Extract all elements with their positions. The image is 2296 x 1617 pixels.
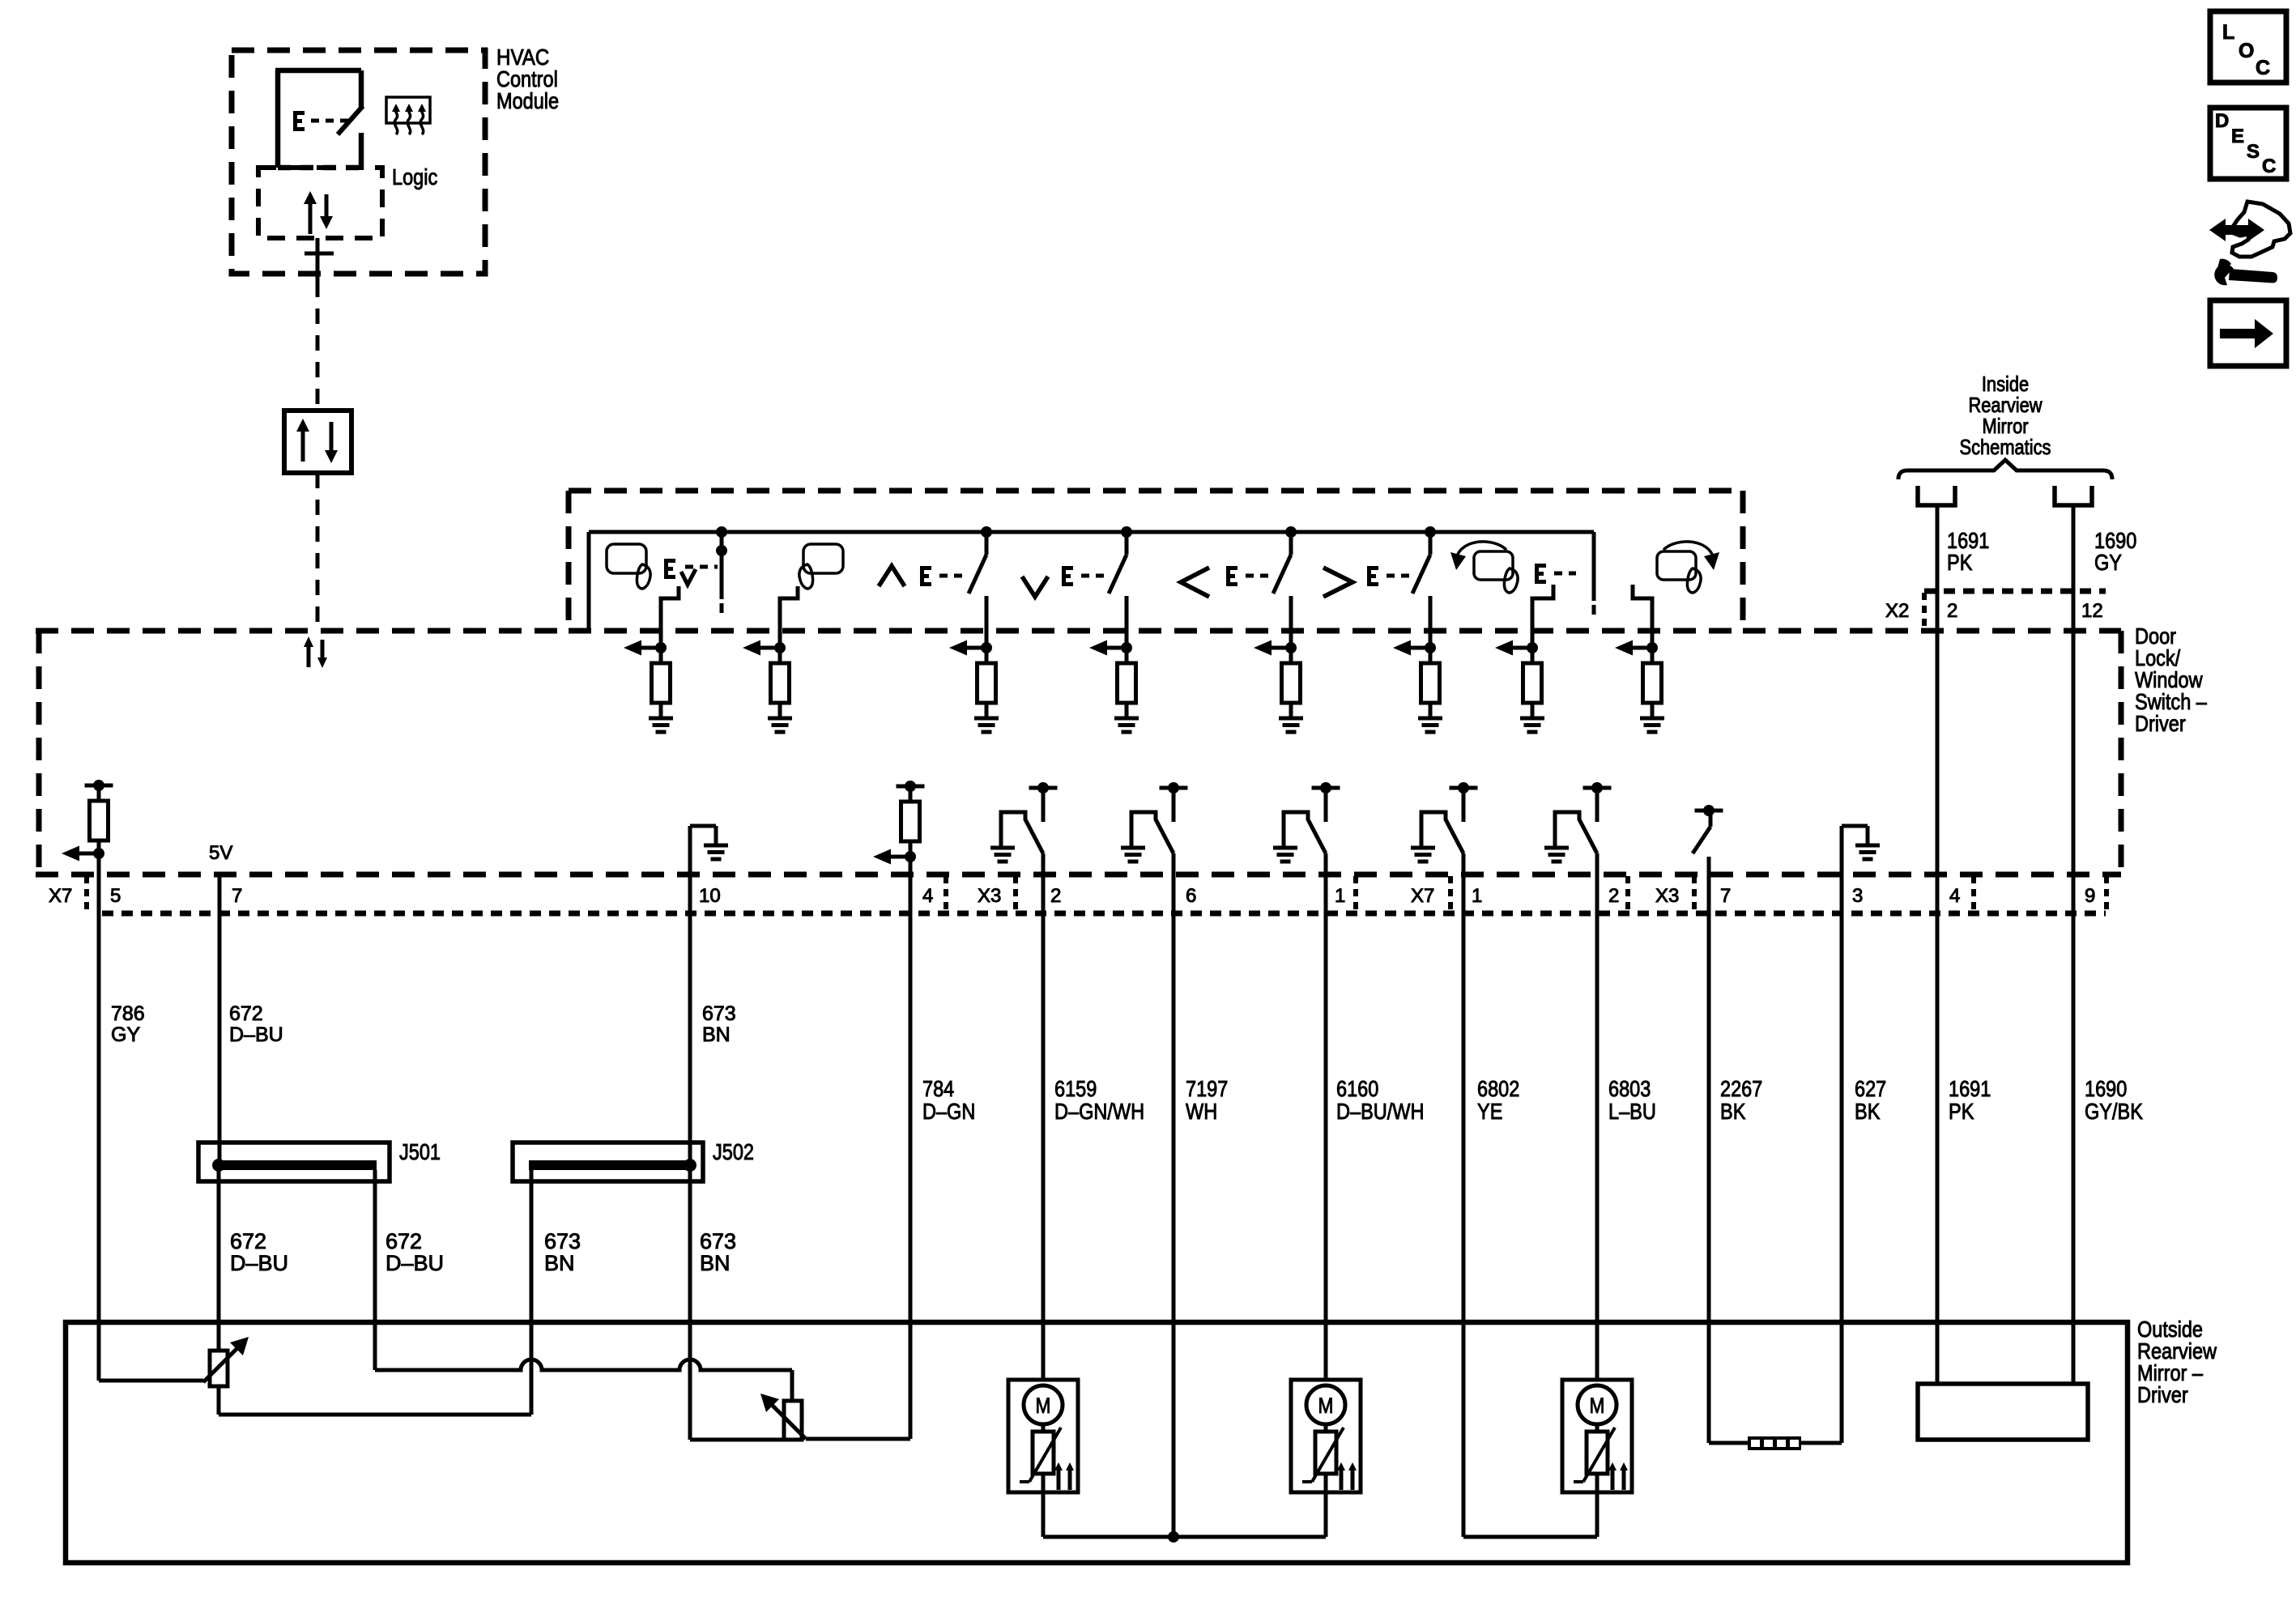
X7 pin4 sense resistor column [897,785,925,789]
motor direction arrows [1057,1468,1061,1490]
svg-text:X2: X2 [1885,600,1909,622]
serial data up/down arrow box [284,411,351,473]
svg-text:4: 4 [922,885,933,907]
motor box [1562,1380,1632,1492]
switch blade [1289,532,1293,555]
svg-text:J502: J502 [713,1139,754,1164]
dashed wire from arrow box to switch module [316,473,320,631]
svg-text:672: 672 [229,1002,263,1025]
inside mirror harness stub block [1918,1384,2088,1440]
svg-text:673: 673 [700,1229,736,1253]
direction glyph [1323,568,1352,597]
wire 627 BK [1840,874,1844,1443]
mirror fold icon [1474,551,1513,580]
inside mirror connector terminal 1 [1918,486,1955,505]
svg-text:784: 784 [922,1076,954,1101]
rheostat1 bottom return [217,1386,221,1415]
svg-text:2: 2 [1050,885,1061,907]
wire hook group8 [1633,585,1652,648]
fixed contact wire [1125,596,1129,648]
wire 673 BN from pin 10 [688,874,692,1165]
heater feed 2267 [1709,1441,1748,1445]
switch blade [1429,532,1433,555]
fixed contact wire [985,596,989,648]
motor box [1291,1380,1361,1492]
motor3 return to 6802 [1463,1535,1597,1539]
svg-text:D–BU: D–BU [386,1251,444,1275]
HVAC switch E actuator symbol [293,111,297,131]
svg-text:9: 9 [2085,885,2095,907]
wire 1691 PK [1936,505,1940,1384]
blade and ground terminal [1555,812,1597,853]
connector separators [84,876,89,912]
motor box [1008,1380,1078,1492]
forward arrow icon box [2210,300,2286,366]
arrow/resistor/ground group 8 [1631,646,1652,650]
wire 786 to rheostat 1 wiper [99,1379,203,1383]
svg-text:1691: 1691 [1949,1076,1991,1101]
svg-text:X7: X7 [49,885,72,907]
Outside Rearview Mirror - Driver box [66,1322,2128,1563]
mirror select switch (driver mirror icon) [607,544,646,573]
arrow/resistor/ground [1270,646,1291,650]
arrow/resistor/ground group 7 [1511,646,1532,650]
dashed serial-data wire [316,282,320,411]
svg-text:D–GN/WH: D–GN/WH [1054,1099,1144,1124]
svg-text:6: 6 [1186,885,1196,907]
direction glyph [1022,577,1048,597]
svg-text:BN: BN [700,1251,731,1275]
mirror select switch (passenger mirror icon) [803,544,843,573]
wire 672 D-BU from pin 7 [218,874,222,1165]
svg-text:Driver: Driver [2135,711,2186,736]
wire hook from group2 to resistor [780,586,798,648]
svg-text:D–GN: D–GN [922,1099,975,1124]
splice pack J501 [198,1143,390,1181]
wire 6802 YE [1462,853,1466,1537]
svg-text:6803: 6803 [1608,1076,1651,1101]
mirror switch pack inner dashed box [566,491,572,631]
wire 672 D-BU J501 to rheostat [217,1170,221,1351]
svg-text:Driver: Driver [2137,1382,2188,1407]
arrow/resistor/ground [1105,646,1127,650]
pivot and contact [1312,786,1340,790]
arrow/resistor/ground [965,646,986,650]
svg-text:7: 7 [1720,885,1731,907]
blade and ground terminal [1421,812,1463,853]
motor M circle [1306,1385,1345,1424]
motor M circle [1024,1385,1063,1424]
wire 672 D-BU J501 right branch [373,1170,377,1370]
svg-text:M: M [1590,1394,1605,1418]
wire hook from group1 to resistor [661,586,679,648]
heater return 627 [1801,1441,1842,1445]
wire 6159 D-GN/WH [1042,853,1046,1380]
arrow/resistor/ground group 2 [759,646,780,650]
svg-text:S: S [2247,141,2260,163]
DESC icon box [2210,108,2286,179]
svg-text:BK: BK [1855,1099,1881,1124]
mirror heater element [1748,1436,1801,1450]
svg-text:BN: BN [544,1251,575,1275]
switch pack supply bus [589,530,1594,534]
wire hook group7 [1532,585,1553,648]
fixed contact wire [1429,596,1433,648]
svg-text:10: 10 [699,885,721,907]
svg-text:M: M [1036,1394,1051,1418]
rheostat2 bottom from 673 BN [690,1438,784,1442]
svg-text:3: 3 [1852,885,1863,907]
part locator double arrow [2224,225,2253,235]
wire 786 GY [97,853,101,1381]
svg-text:673: 673 [544,1229,581,1253]
svg-text:5: 5 [110,885,121,907]
svg-text:D–BU: D–BU [230,1251,288,1275]
HVAC Control Module box [232,50,485,274]
pivot and contact [1160,786,1188,790]
pivot and contact [1029,786,1058,790]
svg-text:Logic: Logic [392,164,437,189]
arrow/resistor/ground [1409,646,1430,650]
X2 connector row [1924,589,2106,594]
pivot and contact [1583,786,1612,790]
mirror glass rheostat 1 (vertical position sensor) [210,1351,228,1386]
motor M circle [1578,1385,1617,1424]
svg-text:6802: 6802 [1477,1076,1519,1101]
direction glyph [879,566,905,586]
HVAC internal relay/switch box U1 [275,68,361,74]
wire 6803 L-BU [1595,853,1600,1380]
svg-text:1690: 1690 [2085,1076,2127,1101]
svg-text:D–BU/WH: D–BU/WH [1336,1099,1425,1124]
wire from logic to HVAC box edge [316,238,320,282]
pin10 ground hook [688,826,692,874]
svg-text:PK: PK [1947,550,1973,575]
motor direction arrows [1611,1468,1615,1490]
svg-text:X3: X3 [1655,885,1679,907]
svg-text:1: 1 [1335,885,1345,907]
E actuator [1226,566,1230,586]
svg-text:6160: 6160 [1336,1076,1378,1101]
pin3 ground hook [1840,826,1844,874]
switch blade [1125,532,1129,555]
mirror glass rheostat 2 (horizontal position sensor) [784,1401,802,1440]
switch blade 1 (closed) [720,532,724,599]
svg-text:2267: 2267 [1720,1076,1762,1101]
rheostat2 wiper to 784 wire [806,1437,910,1441]
blade and ground terminal [1001,812,1043,853]
svg-text:C: C [2262,155,2276,177]
wire 784 D-GN [909,857,913,1439]
svg-text:BK: BK [1720,1099,1746,1124]
momentary switch (X3 pin7 / 2267) [1695,809,1723,813]
svg-text:BN: BN [702,1023,731,1046]
X7 pin5 sense resistor column [85,784,113,788]
connector dotted row [102,911,2106,917]
svg-text:GY/BK: GY/BK [2085,1099,2143,1124]
splice pack J502 [513,1143,703,1181]
wire 673 BN J502 left branch [530,1170,534,1415]
svg-text:E: E [2231,126,2244,147]
svg-text:O: O [2238,40,2254,62]
wire 7197 WH [1172,853,1176,1537]
blade and ground terminal [1131,812,1174,853]
svg-text:673: 673 [702,1002,736,1025]
E actuator group7 [1535,564,1539,584]
svg-text:1: 1 [1472,885,1482,907]
svg-text:WH: WH [1186,1099,1217,1124]
blade and ground terminal [1284,812,1326,853]
mirror unfold icon [1657,551,1696,580]
pivot and contact [1450,786,1478,790]
svg-text:6159: 6159 [1054,1076,1097,1101]
svg-text:GY: GY [2094,550,2122,575]
part locator icon (panel outline) [2232,202,2290,257]
brace [1898,460,2112,479]
svg-text:L–BU: L–BU [1608,1099,1656,1124]
svg-text:D: D [2215,110,2229,132]
motor bottom lead [1595,1474,1600,1492]
motor bottom lead [1042,1474,1046,1492]
wire 673 BN J502 right branch [688,1170,692,1440]
heated mirror element icon [386,97,430,123]
svg-text:L: L [2222,21,2234,44]
HVAC switch blade [338,106,363,134]
svg-text:X3: X3 [978,885,1001,907]
Door Lock/Window Switch box outline [36,631,42,874]
svg-text:PK: PK [1949,1099,1974,1124]
svg-text:M: M [1318,1394,1334,1418]
svg-text:7197: 7197 [1186,1076,1228,1101]
svg-text:2: 2 [1947,600,1957,622]
svg-text:Schematics: Schematics [1960,435,2051,459]
svg-text:786: 786 [111,1002,145,1025]
svg-text:GY: GY [111,1023,140,1046]
svg-text:7: 7 [232,885,242,907]
wire 2267 BK [1707,857,1711,1443]
fixed contact wire [1289,596,1293,648]
direction glyph [1181,568,1209,597]
svg-text:2: 2 [1608,885,1619,907]
E actuator group1 [664,559,668,579]
svg-text:J501: J501 [399,1139,441,1164]
motor position rheostat [1042,1424,1046,1432]
svg-text:X7: X7 [1411,885,1434,907]
svg-text:D–BU: D–BU [229,1023,283,1046]
svg-text:672: 672 [386,1229,422,1253]
arrow/resistor/ground group 1 [640,646,661,650]
LOC icon box [2210,11,2286,83]
switch blade [985,532,989,555]
svg-text:627: 627 [1855,1076,1886,1101]
svg-text:12: 12 [2081,600,2103,622]
wire 1690 GY/BK [2072,505,2076,1384]
svg-text:YE: YE [1477,1099,1502,1124]
motor direction arrows [1340,1468,1344,1490]
svg-text:5V: 5V [209,842,232,864]
inside mirror connector terminal 2 [2055,486,2092,505]
Logic dashed box [258,168,382,238]
E actuator [920,566,924,586]
svg-text:672: 672 [230,1229,266,1253]
logic up/down data arrows [309,202,313,234]
svg-text:4: 4 [1949,885,1960,907]
wire from J501 right branch with hops [375,1360,792,1370]
part locator wrench [2214,264,2234,285]
motor1/motor2 common return to 7197 [1042,1492,1046,1537]
switch blade 7 (closed) [1592,557,1596,601]
svg-text:Module: Module [496,88,559,113]
up/down arrows at switch module entry [307,645,311,667]
svg-text:C: C [2256,57,2270,79]
E actuator [1367,566,1371,586]
motor position rheostat [1324,1424,1328,1432]
wire 6160 D-BU/WH [1324,853,1328,1380]
E actuator [1062,566,1066,586]
motor position rheostat [1595,1424,1600,1432]
motor bottom lead [1324,1474,1328,1492]
